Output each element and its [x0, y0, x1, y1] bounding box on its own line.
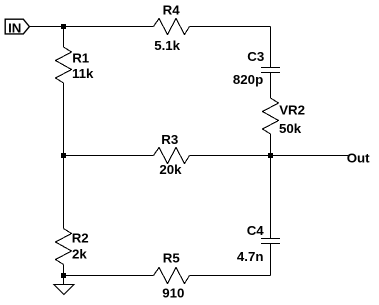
wire VR2 to node B — [270, 134, 272, 156]
wire node D to R5 — [64, 275, 154, 277]
resistor R2 — [56, 229, 89, 265]
wire R5 to bottom-right corner — [190, 275, 271, 277]
svg-text:820p: 820p — [233, 72, 263, 87]
svg-text:C3: C3 — [247, 49, 264, 64]
svg-text:50k: 50k — [279, 121, 302, 136]
resistor VR2 — [263, 98, 306, 136]
node C junction dot — [61, 153, 66, 158]
svg-text:R2: R2 — [72, 231, 89, 246]
resistor R5 — [154, 250, 190, 300]
wire R1 to node C — [63, 83, 65, 156]
svg-text:IN: IN — [8, 20, 21, 35]
svg-text:11k: 11k — [72, 66, 94, 81]
wire node C to R3 — [64, 155, 154, 157]
wire node C down to R2 — [63, 156, 65, 229]
resistor R1 — [56, 47, 95, 83]
wire R3 to node B and Out — [190, 155, 349, 157]
svg-text:5.1k: 5.1k — [154, 38, 180, 53]
resistor R3 — [154, 132, 190, 177]
port IN — [5, 19, 29, 35]
capacitor C4 — [237, 223, 280, 264]
svg-text:R5: R5 — [163, 250, 181, 265]
wire IN to node A and R4 — [29, 26, 153, 28]
svg-text:C4: C4 — [247, 223, 265, 238]
resistor R4 — [154, 3, 190, 54]
wire C4 to node B — [270, 156, 272, 239]
wire top-right corner down to C3 — [270, 27, 272, 68]
svg-text:Out: Out — [347, 150, 370, 165]
svg-text:R3: R3 — [161, 132, 178, 147]
svg-text:VR2: VR2 — [279, 103, 305, 118]
ground — [54, 285, 74, 295]
svg-text:910: 910 — [162, 285, 184, 300]
wire bottom-right corner up to C4 — [270, 244, 272, 276]
svg-text:R1: R1 — [72, 50, 90, 65]
svg-text:2k: 2k — [72, 246, 87, 261]
capacitor C3 — [233, 49, 280, 87]
wire R4 to top-right corner — [190, 26, 271, 28]
node A junction dot — [61, 24, 66, 29]
svg-text:4.7n: 4.7n — [237, 249, 264, 264]
wire R2 to node D and ground — [63, 265, 65, 285]
node B junction dot — [268, 153, 273, 158]
svg-text:R4: R4 — [163, 3, 181, 18]
svg-text:20k: 20k — [159, 162, 182, 177]
wire C3 to VR2 — [270, 73, 272, 99]
wire node A down to R1 — [63, 27, 65, 48]
node D junction dot — [61, 273, 66, 278]
